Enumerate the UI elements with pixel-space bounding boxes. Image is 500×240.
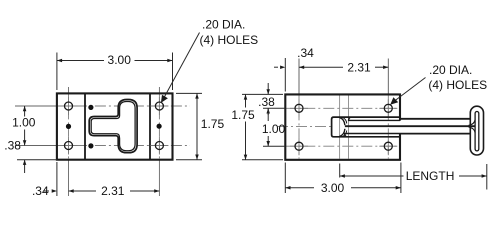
hole bottom-left bbox=[65, 142, 73, 150]
T-grip inner slot bbox=[475, 112, 479, 151]
svg-text:.34: .34 bbox=[32, 184, 49, 198]
T-grip stem fillet bottom bbox=[469, 127, 476, 133]
slot inner edge bottom bbox=[345, 134, 400, 137]
svg-text:1.75: 1.75 bbox=[231, 108, 255, 122]
hole top-right bbox=[155, 102, 163, 110]
hole bottom-right bbox=[155, 142, 163, 150]
T-bar fillet top bbox=[340, 118, 345, 126]
dim 1.75 (right view, left) bbox=[242, 94, 283, 159]
centerline hole row top (left view) bbox=[57, 105, 190, 107]
svg-text:3.00: 3.00 bbox=[108, 53, 132, 67]
svg-text:LENGTH: LENGTH bbox=[406, 169, 455, 183]
svg-text:.38: .38 bbox=[258, 95, 275, 109]
T-grip outer bbox=[470, 106, 483, 155]
plate outline (left view) bbox=[57, 93, 173, 159]
svg-text:1.00: 1.00 bbox=[262, 122, 286, 136]
rod top edge bbox=[400, 118, 471, 120]
bend line left bbox=[84, 93, 86, 159]
rivet dot mid-top bbox=[88, 105, 93, 110]
svg-text:(4) HOLES: (4) HOLES bbox=[428, 78, 487, 92]
leader .20 DIA (4) HOLES (right view) bbox=[393, 78, 426, 103]
hole top-left (right view) bbox=[295, 104, 303, 112]
T-bar fillet bottom bbox=[340, 129, 345, 137]
T-slot outer contour bbox=[89, 100, 137, 153]
svg-text:.34: .34 bbox=[297, 46, 314, 60]
dim LENGTH (bottom right) bbox=[340, 164, 487, 190]
svg-text:1.00: 1.00 bbox=[12, 116, 36, 130]
centerline rod axis bbox=[277, 126, 332, 128]
svg-text:.38: .38 bbox=[4, 139, 21, 153]
T-grip stem fillet top bbox=[469, 120, 476, 126]
hole bottom-right (right view) bbox=[384, 142, 392, 150]
hole crosshairs (left view) bbox=[60, 97, 169, 155]
svg-text:3.00: 3.00 bbox=[321, 181, 345, 195]
dim .38 (right view) bbox=[263, 83, 285, 115]
centerline hole column right (left view) bbox=[158, 87, 160, 93]
centerline hole column left (left view) bbox=[68, 87, 70, 93]
rod bottom edge bbox=[400, 133, 471, 135]
rod middle edge bbox=[345, 125, 475, 127]
dim 2.31 (left view, bottom) bbox=[69, 190, 160, 192]
T-slot inner contour bbox=[91, 102, 135, 151]
hole top-right (right view) bbox=[384, 104, 392, 112]
dim 3.00 (right view, bottom) bbox=[285, 163, 401, 194]
dim .34 (right view, top) bbox=[284, 58, 286, 92]
slot outline (right view, open right) bbox=[332, 117, 400, 137]
rivet dot mid-bottom bbox=[88, 143, 93, 148]
centerline hole row bottom (right view) bbox=[285, 145, 400, 147]
dim .34 (left view, bottom) bbox=[56, 162, 58, 196]
dim 1.00 (right view) bbox=[263, 108, 285, 146]
svg-text:2.31: 2.31 bbox=[101, 184, 125, 198]
dim 1.75 (left view, right) bbox=[176, 93, 202, 159]
centerline hole row bottom (left view) bbox=[57, 145, 190, 147]
hole crosshairs (right view) bbox=[290, 99, 397, 155]
svg-text:.20 DIA.: .20 DIA. bbox=[429, 63, 472, 77]
hole bottom-left (right view) bbox=[295, 142, 303, 150]
rivet dot right bbox=[157, 124, 162, 129]
slot inner edge top bbox=[349, 118, 400, 121]
svg-text:(4) HOLES: (4) HOLES bbox=[200, 33, 259, 47]
centerline hole column right (right view) bbox=[387, 59, 389, 95]
dim .38 (left view, left) bbox=[24, 160, 26, 173]
hole top-left bbox=[65, 102, 73, 110]
hidden line T-bar left bbox=[339, 96, 341, 159]
svg-text:1.75: 1.75 bbox=[201, 117, 225, 131]
svg-text:.20 DIA.: .20 DIA. bbox=[202, 18, 245, 32]
centerline hole row top (right view) bbox=[285, 107, 400, 109]
plate outline (right view) bbox=[285, 94, 400, 159]
leader .20 DIA (4) HOLES (left view) bbox=[163, 33, 200, 100]
dim 3.00 (left view, top) bbox=[57, 53, 173, 91]
hidden line T-bar right bbox=[348, 96, 350, 159]
centerline hole column left (right view) bbox=[298, 59, 300, 95]
dim 2.31 (right view, top) bbox=[299, 66, 388, 68]
rivet dot left bbox=[66, 124, 71, 129]
bend line right bbox=[149, 93, 151, 159]
svg-text:2.31: 2.31 bbox=[347, 60, 371, 74]
dim 1.00 (left view, left) bbox=[24, 106, 26, 146]
